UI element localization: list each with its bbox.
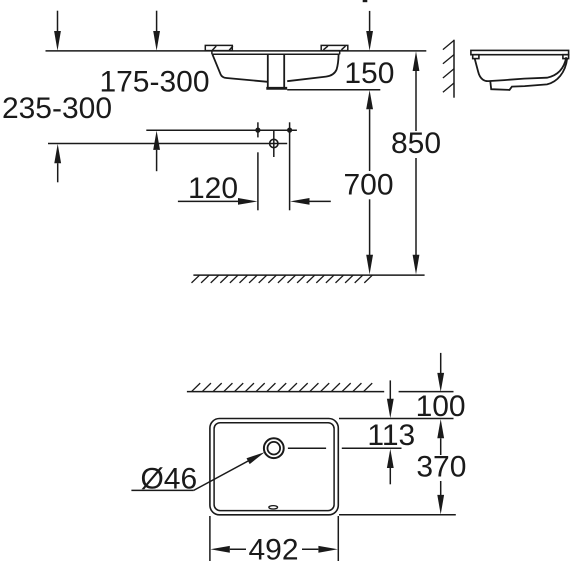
dimension 700 bottom stem + arrow [366,199,373,274]
extension line below dot 1 [257,152,259,210]
basin inner rim (top view) [214,423,334,511]
svg-text:175-300: 175-300 [99,66,209,99]
dimension 150 arrow up / 700 top stem [366,90,373,171]
left mounting clip [205,45,233,50]
dimension 850 bottom stem + arrow [413,158,420,275]
svg-text:700: 700 [343,168,393,201]
svg-text:120: 120 [188,172,238,205]
svg-text:492: 492 [248,533,298,566]
arrow down (235-300 top) [54,11,61,51]
faucet hole outer (top view) [264,438,284,458]
side-view sink rim [471,50,569,58]
basin bowl right (section) [287,54,338,81]
dimension 492 line + arrows [210,546,337,553]
leader line for diameter 46 [131,452,264,490]
faucet centerline [288,447,402,449]
basin bowl left (section) [212,54,267,82]
arrow up (175-300 bottom) [153,131,160,172]
basin outer rim (top view) [210,419,338,515]
drain left wall [267,54,269,87]
tiny top stub [363,0,368,2]
faucet hole inner (top view) [268,442,281,455]
svg-text:235-300: 235-300 [2,92,112,125]
node dot 2 [287,122,292,210]
svg-text:850: 850 [391,127,441,160]
wall hatching (top right) [443,40,454,92]
basin bottom extension line [339,514,456,516]
dimension 113 arrow down [387,380,394,418]
dimension 150 arrow down [366,11,373,51]
line B (235-300 lower reference) [48,143,287,145]
svg-text:150: 150 [344,57,394,90]
right mounting clip [321,45,348,50]
basin rim (section) [212,51,340,54]
dimension 113 arrow up [387,449,394,485]
drain depth reference line (150 bottom) [287,89,380,91]
dimension 370 arrow up [437,419,444,455]
wall hatching (bottom section) [192,383,372,391]
arrow down (175-300 top) [153,11,160,51]
dimension 120 line [178,198,331,205]
svg-text:100: 100 [416,390,466,423]
dimension 100 arrow down [437,353,444,392]
arrow up (235-300 bottom) [54,144,61,182]
floor hatching [192,275,373,283]
dimension 850 arrow up [413,51,420,131]
svg-text:Ø46: Ø46 [140,463,197,496]
overflow slot [269,506,278,509]
wall line (bottom section) [187,391,454,393]
side-view sink outlet [490,58,567,90]
drain bottom [266,87,287,90]
basin top extension line [339,418,454,420]
line A (175-300 lower reference) [146,129,297,131]
wall line (side section, top right) [453,40,455,98]
dimension 492 extension lines [210,516,338,561]
node dot 1 [255,122,260,137]
floor line [193,274,424,276]
drain right wall [283,54,285,87]
svg-text:113: 113 [367,419,415,452]
faucet hole (section view) [270,130,278,158]
svg-text:370: 370 [416,451,466,484]
countertop line [46,50,427,52]
dimension 370 bottom stem + arrow [437,481,444,515]
side-view sink bowl [475,57,567,81]
